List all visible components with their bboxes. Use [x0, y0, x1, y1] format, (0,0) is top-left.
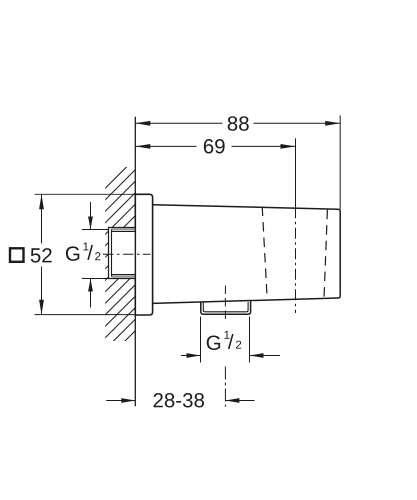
cone body (escutcheon) outline — [153, 205, 341, 304]
value label G (bottom outlet) — [207, 335, 220, 350]
value label 52 — [31, 248, 52, 263]
socket thread dimension arrow (lower, pointing up) — [88, 279, 93, 308]
outlet thread dimension arrow (right, pointing left) — [250, 353, 281, 358]
socket centerline — [103, 253, 151, 255]
dimension line 88 with arrowheads — [135, 121, 340, 126]
extension line for dim 52 (top) — [35, 193, 136, 195]
extension line for socket thread (top) — [82, 229, 109, 231]
wall surface line — [134, 117, 136, 406]
value label 1 superscript (bottom outlet) — [224, 331, 229, 339]
outlet thread dimension arrow (left, pointing right) — [181, 353, 201, 358]
value label G (left inlet) — [66, 246, 79, 261]
square section symbol — [10, 248, 24, 261]
socket thread dimension arrow (upper, pointing down) — [88, 202, 93, 230]
value label 2 subscript (bottom outlet) — [236, 341, 241, 349]
wall hatching — [0, 160, 329, 360]
dimension line 69 with arrowheads — [135, 144, 295, 149]
extension line for outlet thread (left) — [200, 317, 202, 363]
phantom dashed line (left, alternate position) — [262, 207, 267, 300]
dimension line 52 with arrowheads — [39, 194, 44, 314]
fraction slash (bottom outlet) — [228, 334, 234, 349]
dimension 28-38 arrow (right, pointing left) — [225, 398, 254, 403]
extension line for dim 52 (bottom) — [35, 314, 136, 316]
dimension 28-38 arrow (left, pointing right) — [106, 398, 135, 403]
value label 2 subscript (left inlet) — [95, 252, 100, 260]
wall flange (square escutcheon plate) — [135, 194, 152, 315]
value label 69 — [204, 139, 225, 154]
outlet centerline extension (28-38 reference) — [224, 367, 226, 407]
extension line for dim 88 (right) — [339, 115, 341, 209]
phantom dashed line (right, alternate position) — [324, 210, 327, 299]
value label 1 superscript (left inlet) — [83, 242, 88, 250]
extension line for outlet thread (right) — [249, 317, 251, 363]
fraction slash (left inlet) — [87, 245, 93, 260]
value label 88 — [228, 116, 249, 131]
value label 28-38 — [154, 393, 205, 408]
centerline through cone body — [295, 207, 297, 313]
G1/2 inlet socket (threaded) — [109, 227, 136, 279]
extension line for socket thread (bottom) — [82, 278, 109, 280]
extension line for dim 69 (right) — [295, 138, 297, 207]
outlet centerline (through nipple) — [224, 286, 226, 320]
outlet nipple G1/2 (bottom) — [201, 301, 251, 314]
